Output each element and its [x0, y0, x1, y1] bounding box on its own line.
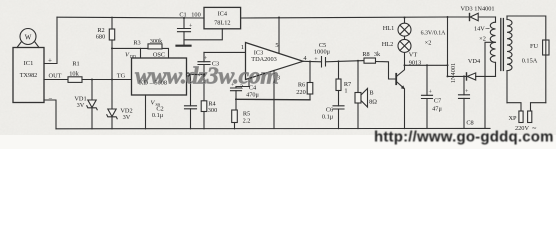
wire feedback node to R6 bottom [236, 98, 310, 101]
svg-text:2.2: 2.2 [243, 118, 251, 125]
diode VD4 1N4001 [448, 58, 496, 80]
svg-text:C1: C1 [179, 12, 186, 19]
wire IC2 output to C3 node [190, 74, 204, 76]
wire VD3 anode to secondary top [478, 16, 495, 18]
svg-text:1: 1 [241, 44, 244, 51]
svg-text:−: − [49, 95, 53, 103]
svg-text:C8: C8 [466, 120, 473, 127]
capacitor C6 0.1u [322, 106, 344, 129]
wire primary bottom to XP pin1 [507, 103, 521, 111]
svg-text:http://www.go-gddq.com: http://www.go-gddq.com [374, 129, 554, 146]
svg-text:8Ω: 8Ω [369, 99, 377, 106]
capacitor C1 100 [178, 12, 201, 46]
watermark www.dz3w.com [135, 64, 279, 90]
svg-text:300k: 300k [150, 38, 163, 45]
node pin 5 label [275, 42, 278, 49]
svg-text:78L12: 78L12 [214, 20, 230, 27]
node pin 3 label [277, 75, 280, 82]
speaker B 8ohm [355, 61, 377, 129]
svg-text:3V: 3V [123, 114, 131, 121]
wire IC1 OUT to R1 [44, 79, 68, 81]
svg-text:FU: FU [530, 43, 539, 50]
svg-text:VD4: VD4 [468, 58, 481, 65]
svg-text:C7: C7 [434, 98, 441, 105]
svg-text:3k: 3k [374, 51, 381, 58]
svg-text:R8: R8 [362, 51, 369, 58]
IC U2 KD-5608 box [132, 58, 187, 95]
svg-text:10k: 10k [69, 71, 79, 78]
svg-text:1000μ: 1000μ [314, 49, 331, 56]
transistor VT 9013 [396, 52, 421, 129]
svg-text:VD3 1N4001: VD3 1N4001 [460, 5, 494, 12]
svg-text:100: 100 [191, 12, 200, 19]
svg-text:6.3V/0.1A: 6.3V/0.1A [421, 31, 447, 37]
node Vdd pin label [125, 52, 136, 60]
transformer T secondary winding [474, 17, 496, 76]
resistor R2 680 [96, 17, 115, 79]
lamp HL1 [383, 18, 411, 37]
wire R8 to VT base [376, 62, 396, 80]
zener diode VD1 3V [74, 80, 97, 129]
wire pin 4 output to C5 [303, 60, 322, 63]
svg-text:47μ: 47μ [432, 106, 442, 113]
watermark go-gddq [374, 129, 554, 146]
diode VD3 1N4001 [460, 5, 494, 20]
svg-text:B: B [369, 90, 373, 97]
svg-text:XP: XP [508, 115, 517, 122]
svg-text:×2: ×2 [425, 40, 432, 47]
svg-text:C6: C6 [326, 106, 333, 113]
svg-text:www.dz3w.com: www.dz3w.com [135, 64, 279, 90]
svg-text:OUT: OUT [49, 73, 62, 80]
svg-text:0.1μ: 0.1μ [322, 114, 334, 121]
svg-text:HL2: HL2 [382, 41, 394, 48]
svg-text:300: 300 [208, 107, 217, 114]
node Vss pin label [151, 100, 161, 108]
capacitor C7 47u [405, 65, 448, 128]
svg-text:IC1: IC1 [24, 60, 34, 67]
resistor R6 220 [296, 62, 313, 100]
svg-text:VT: VT [409, 52, 418, 59]
svg-text:470μ: 470μ [246, 92, 259, 99]
node pin 1 label [241, 44, 244, 51]
resistor R5 2.2 [232, 110, 251, 129]
wire VD3 cathode to rail segment [448, 16, 470, 18]
svg-text:1N4001: 1N4001 [450, 63, 457, 83]
svg-text:0.15A: 0.15A [522, 58, 538, 65]
transformer T primary winding [507, 16, 512, 103]
svg-text:W: W [25, 34, 32, 42]
ground symbol under C1 [177, 45, 191, 47]
wire C5 to R8 [326, 61, 365, 62]
svg-text:TG: TG [117, 73, 126, 80]
wire fuse bottom to XP pin2 [531, 103, 546, 111]
svg-text:680: 680 [96, 34, 105, 41]
wire Vss to ground rail [145, 95, 147, 129]
capacitor C5 1000u [314, 42, 331, 67]
IC U4 78L12 box [204, 7, 241, 28]
capacitor C4 470u [231, 83, 260, 111]
transformer T core [501, 19, 504, 71]
svg-text:220: 220 [296, 89, 305, 96]
capacitor C2 0.1u [152, 75, 197, 129]
svg-text:HL1: HL1 [383, 25, 395, 32]
node TG label [117, 73, 126, 80]
node IC2 output pin circle [186, 73, 189, 76]
svg-text:0.1μ: 0.1μ [152, 112, 164, 119]
svg-text:IC4: IC4 [218, 11, 228, 18]
wire R1 to IC2 TG input [82, 79, 132, 81]
zener diode VD2 3V [107, 80, 133, 129]
wire rectified node vertical [447, 17, 449, 76]
svg-text:×2: ×2 [479, 36, 486, 43]
wire top supply rail left section [57, 16, 204, 19]
wire top supply rail right section [241, 17, 448, 18]
op-amp IC1 TX982 box [13, 48, 44, 103]
svg-text:R3: R3 [133, 40, 140, 47]
resistor R1 10k [68, 61, 82, 83]
node 1N4001 label vertical [450, 63, 457, 83]
node IC1 minus terminal [49, 95, 53, 103]
svg-text:1: 1 [344, 88, 347, 95]
wire secondary centre tap to ground [485, 42, 496, 128]
node pin 4 label [303, 55, 307, 62]
wire IC1 plus to top rail [44, 17, 57, 63]
resistor R7 1 [336, 61, 351, 105]
svg-text:3V: 3V [77, 102, 85, 109]
node OSC pin label [153, 52, 165, 59]
svg-text:TDA2003: TDA2003 [251, 56, 277, 63]
wire pin 5 to top rail [278, 18, 280, 54]
resistor R3 300k [133, 38, 163, 49]
svg-text:R6: R6 [298, 82, 305, 89]
wire pin 3 to ground rail [273, 71, 275, 129]
node IC1 plus terminal [48, 57, 52, 65]
wire pin 2 to C4 [236, 78, 249, 86]
node pin 2 label [240, 84, 243, 91]
wire IC1 minus to ground rail [44, 100, 56, 129]
svg-text:14V∼: 14V∼ [474, 26, 490, 33]
capacitor C8 [459, 76, 474, 128]
op-amp IC3 TDA2003 triangle [246, 43, 304, 80]
lamp HL2 [382, 31, 446, 53]
svg-text:R1: R1 [72, 61, 79, 68]
resistor R4 300 [201, 101, 217, 129]
wire C3 to pin 1 [204, 51, 246, 53]
node junction dots [91, 16, 465, 100]
svg-text:5: 5 [275, 42, 278, 49]
svg-text:TX982: TX982 [20, 72, 38, 79]
svg-text:R5: R5 [243, 111, 250, 118]
fuse FU 0.15A [522, 40, 549, 103]
connector XP plug pins [508, 111, 536, 132]
microphone W [17, 29, 39, 48]
node OUT label [49, 73, 62, 80]
wire IC4 ground pin to C1 bottom [184, 29, 222, 40]
resistor R8 3k [362, 51, 381, 63]
wire primary top to fuse [507, 16, 546, 40]
paper noise texture [0, 0, 556, 135]
capacitor C3 coupling [198, 52, 219, 100]
wire bottom ground rail [56, 127, 490, 129]
wire 3V node to R3 and Vdd [112, 48, 169, 58]
